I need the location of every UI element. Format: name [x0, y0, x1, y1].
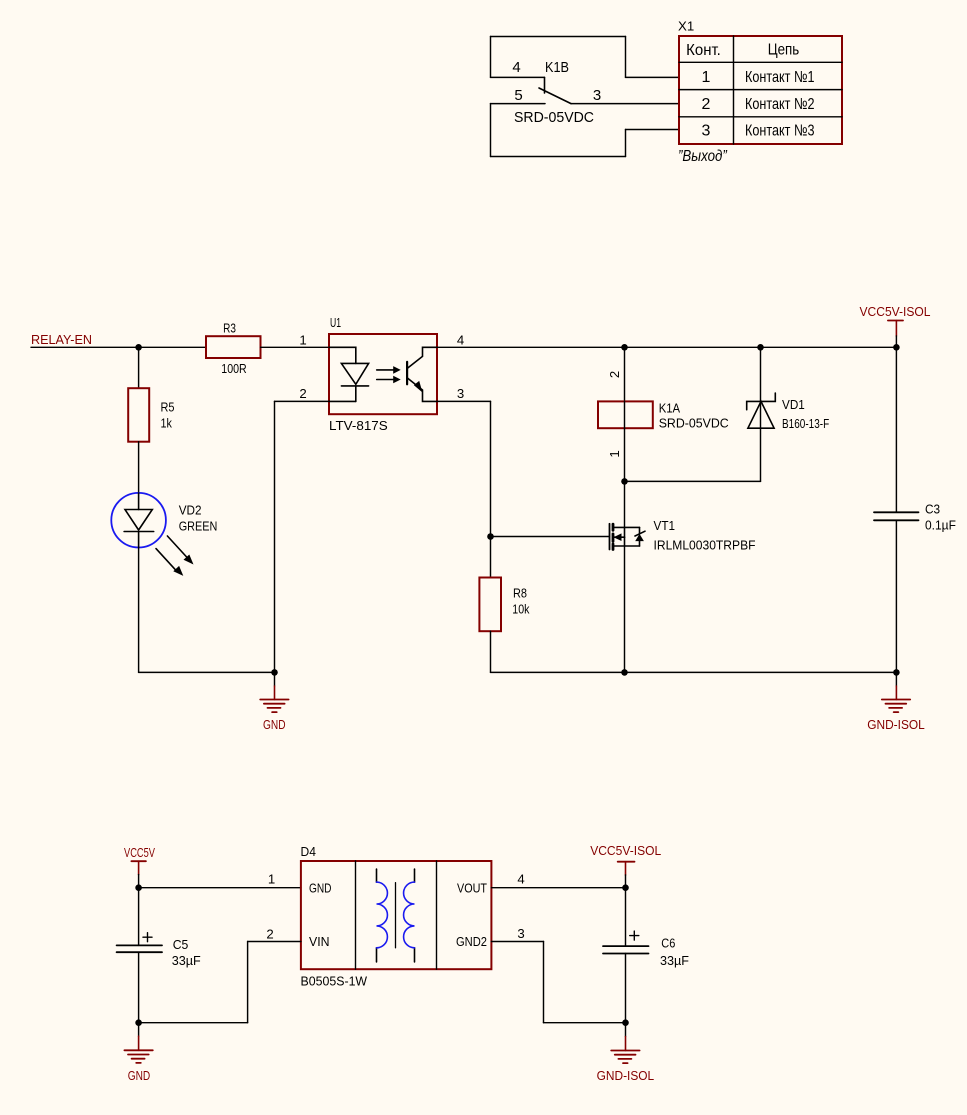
svg-text:4: 4 — [457, 333, 464, 348]
svg-text:GND-ISOL: GND-ISOL — [597, 1068, 655, 1083]
svg-text:100R: 100R — [221, 361, 246, 376]
svg-text:Контакт №1: Контакт №1 — [745, 69, 815, 86]
svg-text:GND2: GND2 — [456, 934, 487, 949]
svg-text:1: 1 — [268, 872, 275, 887]
svg-text:”Выход”: ”Выход” — [678, 148, 727, 165]
svg-text:C3: C3 — [925, 501, 940, 516]
junction — [622, 1019, 629, 1026]
dc-dc converter D4 — [266, 844, 524, 989]
wire — [138, 442, 140, 493]
svg-text:SRD-05VDC: SRD-05VDC — [659, 416, 729, 431]
transformer — [377, 869, 415, 962]
BOTTOM SECTION — [117, 843, 689, 1083]
svg-text:33µF: 33µF — [172, 953, 201, 968]
svg-text:1: 1 — [299, 333, 306, 348]
wire — [625, 37, 627, 78]
capacitor C5 — [117, 888, 201, 1023]
power VCC5V-ISOL — [590, 843, 661, 888]
transistor VT1 — [610, 481, 756, 552]
wire — [491, 36, 626, 38]
wire — [491, 941, 543, 943]
wire — [490, 401, 492, 577]
svg-text:2: 2 — [266, 927, 273, 942]
wire — [543, 942, 545, 1023]
wire — [490, 104, 492, 157]
ground GND-ISOL — [597, 1023, 655, 1083]
svg-text:X1: X1 — [678, 19, 694, 34]
svg-text:VT1: VT1 — [654, 518, 676, 533]
wire — [490, 37, 492, 78]
svg-text:VD2: VD2 — [179, 503, 202, 518]
wire — [139, 671, 275, 673]
svg-text:VIN: VIN — [309, 934, 330, 949]
junction — [487, 533, 494, 540]
svg-text:GREEN: GREEN — [179, 519, 218, 534]
junction — [893, 344, 900, 351]
junction — [621, 478, 628, 485]
wire — [625, 130, 627, 157]
wire — [139, 887, 301, 889]
svg-text:IRLML0030TRPBF: IRLML0030TRPBF — [654, 538, 756, 553]
relay coil K1A — [598, 347, 729, 481]
svg-text:0.1µF: 0.1µF — [925, 518, 956, 533]
svg-text:C5: C5 — [173, 937, 189, 952]
junction — [271, 669, 278, 676]
power VCC5V-ISOL — [860, 304, 931, 347]
wire gate — [491, 536, 610, 538]
capacitor C3 — [874, 347, 956, 672]
wire — [625, 480, 761, 482]
svg-text:VCC5V-ISOL: VCC5V-ISOL — [590, 843, 661, 858]
svg-text:VCC5V: VCC5V — [124, 845, 155, 860]
svg-text:3: 3 — [702, 123, 711, 140]
svg-text:VD1: VD1 — [782, 397, 805, 412]
svg-text:VOUT: VOUT — [457, 880, 487, 895]
LED VD2 — [111, 493, 217, 576]
svg-text:1: 1 — [702, 69, 711, 86]
svg-text:2: 2 — [702, 96, 711, 113]
power VCC5V — [124, 845, 155, 888]
MIDDLE SECTION — [31, 304, 956, 732]
wire — [626, 129, 680, 131]
wire — [491, 103, 546, 105]
junction — [893, 669, 900, 676]
ground GND — [124, 1023, 152, 1083]
junction — [135, 1019, 142, 1026]
junction — [622, 884, 629, 891]
wire pin4 rail — [437, 346, 896, 348]
svg-text:3: 3 — [593, 87, 601, 104]
wire — [261, 346, 330, 348]
svg-text:5: 5 — [514, 87, 522, 104]
optocoupler U1 — [299, 315, 464, 433]
svg-text:B0505S-1W: B0505S-1W — [301, 974, 368, 989]
junction — [135, 344, 142, 351]
svg-text:GND-ISOL: GND-ISOL — [867, 717, 925, 732]
svg-text:1k: 1k — [161, 416, 173, 431]
svg-text:R8: R8 — [513, 586, 527, 601]
svg-text:RELAY-EN: RELAY-EN — [31, 332, 92, 347]
svg-text:Цепь: Цепь — [768, 42, 800, 59]
wire — [247, 942, 249, 1023]
junction — [621, 669, 628, 676]
svg-text:3: 3 — [457, 386, 464, 401]
svg-text:4: 4 — [512, 59, 520, 76]
wire — [571, 103, 679, 105]
ground GND-ISOL — [867, 672, 925, 732]
diode VD1 — [747, 347, 830, 431]
wire — [491, 887, 625, 889]
svg-text:4: 4 — [517, 872, 524, 887]
svg-text:B160-13-F: B160-13-F — [782, 416, 829, 431]
wire — [138, 548, 140, 673]
ground GND — [260, 672, 288, 732]
connector X1 — [678, 19, 842, 166]
svg-text:C6: C6 — [661, 935, 675, 950]
wire — [544, 1022, 626, 1024]
wire — [275, 400, 330, 402]
wire — [139, 1022, 248, 1024]
capacitor C6 — [603, 888, 689, 1023]
svg-text:2: 2 — [607, 371, 622, 378]
svg-text:Конт.: Конт. — [686, 42, 721, 59]
wire — [490, 631, 492, 672]
svg-text:SRD-05VDC: SRD-05VDC — [514, 109, 594, 126]
svg-text:K1A: K1A — [659, 401, 681, 416]
svg-text:K1B: K1B — [545, 59, 569, 76]
svg-text:D4: D4 — [301, 844, 316, 859]
svg-text:Контакт №3: Контакт №3 — [745, 123, 815, 140]
svg-text:R5: R5 — [161, 400, 175, 415]
svg-text:33µF: 33µF — [660, 953, 689, 968]
wire — [138, 347, 140, 388]
svg-text:10k: 10k — [512, 602, 529, 617]
svg-text:LTV-817S: LTV-817S — [329, 418, 388, 433]
svg-text:2: 2 — [299, 386, 306, 401]
svg-text:3: 3 — [517, 926, 524, 941]
junction — [757, 344, 764, 351]
wire — [491, 76, 545, 78]
svg-text:VCC5V-ISOL: VCC5V-ISOL — [860, 304, 931, 319]
wire — [31, 346, 206, 348]
svg-text:1: 1 — [607, 450, 622, 457]
TOP SECTION — [491, 19, 843, 166]
wire — [626, 76, 680, 78]
svg-text:U1: U1 — [330, 315, 341, 330]
wire — [491, 156, 626, 158]
svg-text:GND: GND — [309, 880, 332, 895]
wire — [248, 941, 301, 943]
relay contact K1B — [512, 59, 601, 126]
svg-text:GND: GND — [128, 1068, 151, 1083]
wire bottom rail — [491, 671, 897, 673]
resistor R5 — [128, 388, 174, 442]
junction — [621, 344, 628, 351]
wire — [760, 428, 762, 481]
resistor R8 — [479, 578, 529, 632]
wire — [274, 401, 276, 672]
svg-text:GND: GND — [263, 717, 286, 732]
svg-text:R3: R3 — [223, 321, 236, 336]
resistor R3 — [206, 321, 261, 376]
svg-text:Контакт №2: Контакт №2 — [745, 96, 815, 113]
junction — [135, 884, 142, 891]
wire — [437, 400, 491, 402]
wire — [624, 546, 626, 672]
